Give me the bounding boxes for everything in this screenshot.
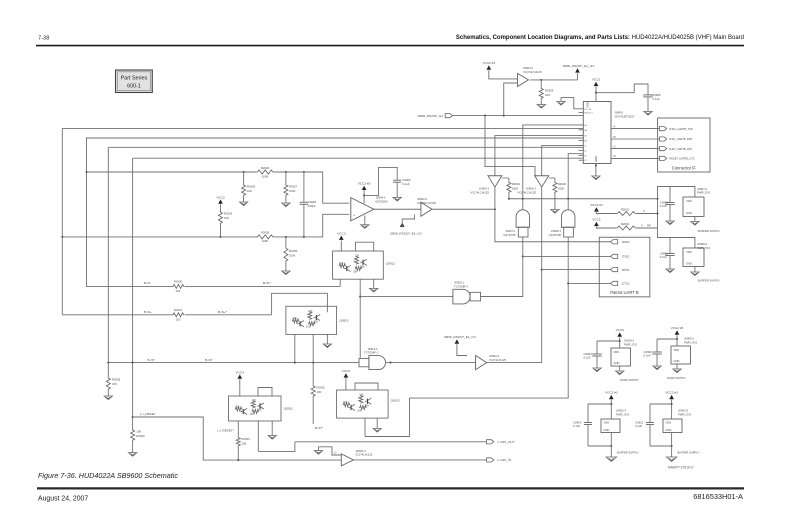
svg-text:Q0912: Q0912	[386, 262, 395, 266]
svg-text:Q0910: Q0910	[339, 319, 348, 323]
svg-text:VCC2 #3: VCC2 #3	[590, 203, 603, 207]
svg-text:0.1uF: 0.1uF	[635, 424, 642, 428]
svg-text:R2630: R2630	[174, 280, 183, 284]
svg-text:JRXD2: JRXD2	[622, 240, 631, 244]
svg-text:Schematics, Component Location: Schematics, Component Location Diagrams,…	[456, 35, 744, 41]
svg-text:10K: 10K	[357, 409, 362, 412]
svg-text:BUFFER SUPPLY: BUFFER SUPPLY	[617, 451, 639, 455]
svg-text:VCC2 #3: VCC2 #3	[605, 391, 618, 395]
svg-text:JTXD2: JTXD2	[622, 255, 630, 259]
svg-text:L-/_RESET*: L-/_RESET*	[217, 428, 235, 432]
svg-text:10K: 10K	[339, 262, 344, 265]
svg-text:100K: 100K	[262, 174, 269, 178]
svg-text:10K: 10K	[355, 255, 360, 258]
svg-text:100: 100	[317, 390, 322, 394]
svg-text:VDD: VDD	[666, 421, 672, 425]
svg-text:August 24, 2007: August 24, 2007	[38, 496, 88, 503]
svg-text:6816533H01-A: 6816533H01-A	[693, 492, 743, 501]
svg-text:10K: 10K	[235, 406, 240, 409]
svg-text:0.1uF: 0.1uF	[660, 255, 667, 259]
svg-text:VC(74LC)4125: VC(74LC)4125	[517, 190, 536, 194]
svg-text:SB96_RS232*_E1_/1V: SB96_RS232*_E1_/1V	[563, 64, 596, 68]
svg-text:NP: NP	[647, 224, 651, 228]
svg-text:2D: 2D	[584, 160, 587, 162]
svg-text:R2621: R2621	[174, 308, 183, 312]
svg-text:100: 100	[242, 441, 247, 445]
svg-text:VC(74L)X125: VC(74L)X125	[489, 358, 506, 362]
svg-text:NANO SUPPLY: NANO SUPPLY	[667, 376, 686, 380]
svg-text:VDD: VDD	[674, 348, 680, 352]
svg-text:VCC3: VCC3	[342, 369, 351, 373]
svg-text:R2628: R2628	[545, 89, 554, 93]
svg-text:GND: GND	[614, 361, 620, 365]
svg-text:0.1uF: 0.1uF	[652, 97, 659, 101]
svg-text:1D: 1D	[584, 155, 587, 157]
svg-text:BJ/9*_UARTB_RTS: BJ/9*_UARTB_RTS	[670, 147, 693, 151]
svg-text:R2626: R2626	[261, 166, 270, 170]
svg-text:600-1: 600-1	[127, 84, 141, 90]
svg-text:YB: YB	[613, 136, 617, 139]
svg-text:PWR_5'/O: PWR_5'/O	[678, 412, 692, 416]
svg-text:R2636: R2636	[112, 378, 121, 382]
svg-text:VCC5: VCC5	[616, 328, 625, 332]
svg-text:VCC3: VCC3	[337, 231, 346, 235]
svg-text:R2633: R2633	[242, 437, 251, 441]
svg-text:VC(74LC)X125: VC(74LC)X125	[417, 201, 436, 205]
svg-text:BUFFER SUPPLY: BUFFER SUPPLY	[678, 451, 700, 455]
svg-text:PWR_5'/O: PWR_5'/O	[616, 412, 630, 416]
svg-text:10K: 10K	[308, 310, 313, 313]
svg-text:10K: 10K	[252, 399, 257, 402]
svg-text:VCC2 #3: VCC2 #3	[358, 181, 371, 185]
svg-text:R2635: R2635	[289, 249, 298, 253]
svg-text:10K: 10K	[257, 409, 262, 412]
svg-text:Part Series: Part Series	[121, 76, 148, 82]
svg-text:100K: 100K	[289, 254, 296, 258]
svg-text:SB96_RS232*_E1: SB96_RS232*_E1	[418, 114, 444, 118]
svg-text:100pF: 100pF	[308, 204, 316, 208]
svg-text:VCC2 #3: VCC2 #3	[671, 326, 684, 330]
svg-text:B-/S-: B-/S-	[144, 281, 151, 285]
svg-text:GND: GND	[604, 428, 610, 432]
svg-text:GND: GND	[686, 211, 692, 215]
svg-text:VCC3: VCC3	[216, 195, 225, 199]
svg-text:B-/S-*: B-/S-*	[263, 281, 272, 285]
svg-text:PWR_5'/O: PWR_5'/O	[697, 246, 711, 250]
svg-text:L-/497_OUT: L-/497_OUT	[498, 440, 515, 444]
svg-text:TC7S08F-J: TC7S08F-J	[364, 351, 379, 355]
svg-text:0.1uF: 0.1uF	[644, 354, 651, 358]
svg-text:R2632: R2632	[317, 386, 326, 390]
svg-text:VC(74L)X125: VC(74L)X125	[355, 453, 372, 457]
svg-text:10K: 10K	[343, 401, 348, 404]
svg-text:GND: GND	[674, 359, 680, 363]
svg-text:0.1uF: 0.1uF	[402, 182, 409, 186]
svg-text:B-/S*: B-/S*	[205, 358, 213, 362]
svg-text:10K: 10K	[250, 413, 255, 416]
svg-text:R2620: R2620	[558, 182, 567, 186]
svg-text:PWR_5'/O: PWR_5'/O	[624, 342, 638, 346]
svg-text:R2631: R2631	[621, 208, 630, 212]
svg-text:0.1uF: 0.1uF	[660, 204, 667, 208]
svg-text:MC33202: MC33202	[376, 199, 389, 203]
svg-text:R2627: R2627	[289, 185, 298, 189]
svg-text:100: 100	[176, 289, 181, 293]
svg-text:VCC2 #3: VCC2 #3	[665, 391, 678, 395]
svg-text:10K: 10K	[365, 404, 370, 407]
svg-text:2C: 2C	[584, 150, 587, 152]
svg-text:VCC3: VCC3	[236, 370, 245, 374]
svg-text:R2625: R2625	[224, 212, 233, 216]
svg-text:GND: GND	[686, 262, 692, 266]
svg-text:Patriot UART B: Patriot UART B	[610, 290, 639, 295]
svg-text:VQ7ST08: VQ7ST08	[503, 233, 516, 237]
svg-text:JRTS2: JRTS2	[622, 268, 630, 272]
svg-text:GND: GND	[666, 428, 672, 432]
svg-text:BUFFER SUPPLY: BUFFER SUPPLY	[698, 279, 720, 283]
svg-text:VDD: VDD	[686, 250, 692, 254]
svg-text:VCC2 #3: VCC2 #3	[483, 61, 496, 65]
svg-text:+: +	[353, 214, 355, 218]
svg-text:NANO SUPPLY: NANO SUPPLY	[620, 378, 639, 382]
svg-text:R2628: R2628	[261, 231, 270, 235]
svg-text:E1_OE: E1_OE	[584, 109, 592, 111]
svg-text:R2629: R2629	[136, 434, 145, 438]
svg-text:L-/_RESET: L-/_RESET	[140, 412, 156, 416]
svg-text:100K: 100K	[512, 187, 519, 191]
svg-text:GND: GND	[594, 156, 598, 162]
svg-text:SN74CBT3257: SN74CBT3257	[615, 115, 636, 119]
svg-text:YC: YC	[613, 145, 617, 148]
svg-text:B-/S+*: B-/S+*	[218, 310, 228, 314]
svg-text:7-38: 7-38	[38, 35, 49, 41]
svg-text:VDD: VDD	[604, 421, 610, 425]
svg-text:10K: 10K	[306, 326, 311, 329]
svg-text:RESET_UARTB_CTS: RESET_UARTB_CTS	[670, 157, 695, 161]
svg-text:YD: YD	[613, 155, 617, 158]
svg-text:Connector IF: Connector IF	[672, 166, 697, 171]
svg-text:10K: 10K	[292, 317, 297, 320]
svg-text:JCTS2: JCTS2	[622, 282, 630, 286]
svg-text:10K: 10K	[224, 216, 229, 220]
svg-text:BJ/9+_UARTB_TXD: BJ/9+_UARTB_TXD	[670, 127, 693, 131]
svg-text:VDD: VDD	[586, 102, 590, 108]
svg-text:10K: 10K	[360, 265, 365, 268]
svg-text:SB96_RS232*_E1_/1V: SB96_RS232*_E1_/1V	[444, 335, 477, 339]
svg-text:PWR_5'/O: PWR_5'/O	[697, 191, 711, 195]
svg-text:R2626: R2626	[247, 185, 256, 189]
svg-text:BUFFER SUPPLY: BUFFER SUPPLY	[698, 229, 720, 233]
svg-text:B-/S+: B-/S+	[144, 310, 152, 314]
svg-text:100K: 100K	[289, 189, 296, 193]
svg-text:10K: 10K	[136, 430, 141, 434]
svg-text:10K: 10K	[314, 321, 319, 324]
svg-text:TC7S08F-J: TC7S08F-J	[454, 285, 469, 289]
svg-text:0.1uF: 0.1uF	[584, 356, 591, 360]
svg-text:PWR_5'/O: PWR_5'/O	[684, 340, 698, 344]
svg-text:100K: 100K	[262, 239, 269, 243]
svg-text:VC(74LC)4125: VC(74LC)4125	[523, 70, 542, 74]
svg-text:R2634: R2634	[512, 182, 521, 186]
svg-text:VDD: VDD	[614, 350, 620, 354]
svg-text:Q0911: Q0911	[284, 407, 293, 411]
svg-text:B-/S*: B-/S*	[148, 358, 156, 362]
svg-text:VDD: VDD	[686, 199, 692, 203]
svg-text:YA: YA	[613, 125, 616, 128]
svg-text:SELECT: SELECT	[584, 112, 593, 114]
svg-text:10K: 10K	[353, 270, 358, 273]
svg-text:Figure 7-36. HUD4022A SB9600 S: Figure 7-36. HUD4022A SB9600 Schematic	[38, 471, 178, 480]
svg-text:0.1uF: 0.1uF	[573, 424, 580, 428]
svg-text:MAEPP-27919-O: MAEPP-27919-O	[668, 466, 694, 470]
svg-text:L-/497_IN: L-/497_IN	[498, 458, 512, 462]
svg-text:SB96_RS232*_E1_/1V: SB96_RS232*_E1_/1V	[390, 232, 423, 236]
svg-text:10K: 10K	[247, 189, 252, 193]
svg-text:R2632: R2632	[621, 222, 630, 226]
svg-text:B-/S**: B-/S**	[315, 426, 324, 430]
svg-text:VCC5: VCC5	[592, 218, 601, 222]
svg-text:VC(74LC)4125: VC(74LC)4125	[470, 190, 489, 194]
svg-text:VCC3: VCC3	[592, 78, 601, 82]
svg-text:10K: 10K	[112, 382, 117, 386]
svg-text:BJ/9-_UARTB_RXD: BJ/9-_UARTB_RXD	[670, 137, 693, 141]
svg-text:10K: 10K	[545, 93, 550, 97]
svg-text:VQ7ST08: VQ7ST08	[549, 233, 562, 237]
svg-text:1C: 1C	[584, 145, 587, 147]
svg-text:100: 100	[176, 318, 181, 322]
svg-text:Q0913: Q0913	[391, 399, 400, 403]
svg-text:10K: 10K	[359, 394, 364, 397]
svg-text:100K: 100K	[558, 187, 565, 191]
